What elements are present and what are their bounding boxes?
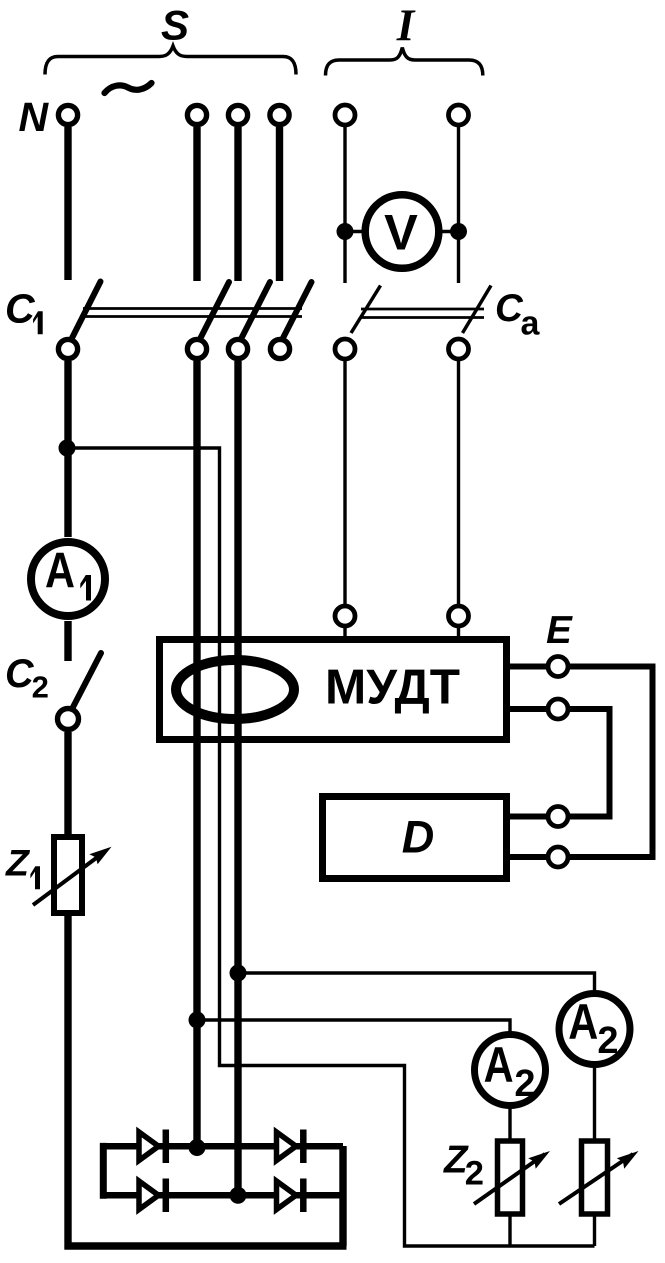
svg-text:E: E bbox=[546, 609, 573, 652]
svg-text:2: 2 bbox=[32, 670, 49, 705]
svg-text:S: S bbox=[161, 2, 189, 49]
svg-text:2: 2 bbox=[514, 1063, 535, 1105]
svg-text:A: A bbox=[45, 542, 75, 599]
svg-text:МУДТ: МУДТ bbox=[325, 660, 460, 715]
svg-text:C: C bbox=[5, 286, 36, 332]
svg-text:I: I bbox=[396, 1, 416, 51]
svg-text:Z: Z bbox=[5, 842, 31, 884]
svg-text:a: a bbox=[521, 305, 541, 343]
svg-text:V: V bbox=[384, 204, 418, 261]
svg-text:A: A bbox=[484, 1036, 514, 1093]
svg-text:N: N bbox=[18, 94, 49, 140]
svg-text:2: 2 bbox=[465, 1155, 484, 1193]
svg-text:D: D bbox=[402, 812, 435, 863]
svg-text:2: 2 bbox=[597, 1020, 618, 1062]
svg-text:C: C bbox=[5, 652, 34, 696]
svg-text:A: A bbox=[568, 993, 598, 1050]
